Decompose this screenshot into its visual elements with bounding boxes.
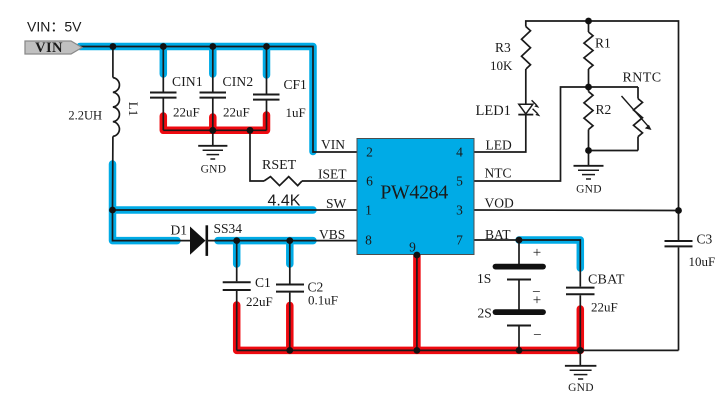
wire VBS blue after diode [218,237,313,245]
junction VBS net / C2 [286,237,293,244]
wire ISET to pin6 [302,180,357,182]
junction ground bus / C2 [286,347,293,354]
svg-text:R1: R1 [595,36,611,51]
capacitor CBAT [566,287,595,289]
wire CIN1 blue stub [160,47,168,75]
capacitor CIN1 [162,47,164,92]
svg-text:VOD: VOD [485,196,514,211]
wire VOD net [474,209,679,212]
svg-text:2.2UH: 2.2UH [68,109,102,123]
battery cell 2S [496,309,544,315]
wire bottom red ground bus [237,305,581,350]
junction BAT net / battery [516,237,523,244]
svg-text:R3: R3 [495,40,511,55]
svg-text:10K: 10K [490,58,513,73]
junction VBS net / C1 [233,237,240,244]
wire LED1 to R3 [525,69,527,104]
svg-text:7: 7 [456,233,463,248]
junction VOD net / C3 [675,207,682,214]
wire SW centerline [113,209,358,211]
wire pin9 centerline [416,255,418,351]
svg-text:SS34: SS34 [214,221,243,236]
svg-text:22uF: 22uF [223,105,250,120]
wire CF1 blue stub [263,47,271,76]
ground GND3 lead [579,350,581,365]
wire ISET vertical from bus [250,130,264,181]
svg-text:NTC: NTC [485,166,512,181]
wire CBAT red stub [577,309,585,350]
ground GND1 lead [212,130,214,145]
battery cell 1S [496,264,544,270]
junction ground bus / battery [516,347,523,354]
op-amp U1 PW4284 IC body [357,139,474,255]
wire BAT blue highlight [519,240,580,268]
svg-text:4: 4 [456,145,463,160]
junction input GND bus / RSET [247,127,254,134]
node VIN input tag [25,41,82,54]
svg-text:4.4K: 4.4K [268,193,301,210]
wire CIN2 red stub [209,117,217,130]
junction VIN rail / CIN2 [209,43,216,50]
svg-text:VIN: VIN [35,40,63,56]
capacitor CF1 [266,47,268,94]
wire NTC net [474,87,638,181]
svg-text:L1: L1 [126,102,141,116]
capacitor CIN2 [212,47,214,92]
junction NTC net / R1 / R2 [585,84,592,91]
wire VIN rail blue highlight [80,47,313,152]
wire L1 bottom to VBS [113,136,191,240]
capacitor C2 [289,241,291,284]
svg-text:GND: GND [576,184,602,196]
svg-text:8: 8 [365,233,372,248]
inductor L1 [113,78,120,137]
wire C2 blue stub [286,241,294,264]
wire top right rail [526,21,679,211]
svg-text:+: + [533,293,541,309]
resistor R1 [588,21,590,32]
wire pin9 red ground [413,255,421,350]
svg-text:VBS: VBS [319,227,345,242]
svg-text:C1: C1 [255,275,271,290]
svg-text:GND: GND [568,382,594,394]
svg-text:GND: GND [201,164,227,176]
junction SW net / L1 branch [109,207,116,214]
LED LED1 [519,104,533,114]
svg-text:6: 6 [366,174,373,189]
svg-text:10uF: 10uF [689,254,716,269]
wire LED net [474,115,526,152]
svg-text:1S: 1S [477,271,491,286]
wire CIN2 blue stub [209,47,217,75]
resistor R3 [522,27,531,70]
svg-text:2S: 2S [478,306,492,321]
svg-text:VIN: VIN [321,137,345,152]
svg-text:22uF: 22uF [591,300,618,315]
svg-text:5: 5 [456,174,463,189]
wire BAT net centerline [474,240,580,287]
svg-text:1uF: 1uF [286,105,306,120]
svg-text:CF1: CF1 [284,77,307,92]
svg-text:C3: C3 [697,232,713,247]
capacitor C3 [678,211,680,241]
junction input GND bus / GND1 [209,127,216,134]
wire SW blue horizontal [113,206,314,214]
wire C1 blue stub [233,241,241,264]
svg-text:3: 3 [456,203,463,218]
svg-text:CIN2: CIN2 [223,74,254,89]
junction ground bus / CBAT / GND3 [577,347,584,354]
svg-text:1: 1 [365,203,372,218]
junction top rail / R1 [585,18,592,25]
ground GND2 lead [588,151,590,166]
svg-text:D1: D1 [171,223,188,238]
svg-text:CIN1: CIN1 [172,74,203,89]
resistor RSET [264,177,302,186]
junction VIN rail / CIN1 [160,43,167,50]
battery 1S lead [518,240,520,264]
svg-text:22uF: 22uF [173,105,200,120]
svg-text:VIN：5V: VIN：5V [27,19,82,35]
svg-text:2: 2 [366,145,373,160]
svg-text:+: + [533,245,541,261]
wire L1-to-SW blue vertical [113,164,178,241]
thermistor RNTC [637,87,639,99]
wire L1 branch top [112,47,114,78]
svg-text:SW: SW [326,196,347,211]
resistor R2 [584,92,593,130]
junction VIN rail / CF1 [263,43,270,50]
svg-text:0.1uF: 0.1uF [308,293,338,308]
wire C2 red stub [286,306,294,351]
wire input cap red ground bus [163,115,266,130]
wire red bus centerline [163,129,266,131]
capacitor C1 [236,241,238,282]
svg-text:22uF: 22uF [246,294,273,309]
svg-text:R2: R2 [596,102,612,117]
svg-text:BAT: BAT [485,227,511,242]
svg-text:RNTC: RNTC [623,71,662,86]
svg-text:ISET: ISET [318,167,347,182]
svg-text:−: − [533,328,541,344]
svg-text:LED: LED [486,138,512,153]
wire bottom bus centerline [237,349,679,351]
svg-text:PW4284: PW4284 [380,182,448,204]
junction pin9 at IC bottom [414,252,421,259]
wire R2-RNTC bottom [589,150,639,152]
wire VIN rail centerline [80,47,357,153]
svg-text:LED1: LED1 [476,103,511,119]
junction VIN rail / L1 [110,43,117,50]
svg-text:RSET: RSET [262,158,297,173]
junction ground bus / pin9 [414,347,421,354]
junction R2 / RNTC / GND2 [585,147,592,154]
diode D1 [190,227,206,255]
svg-text:CBAT: CBAT [588,273,625,288]
